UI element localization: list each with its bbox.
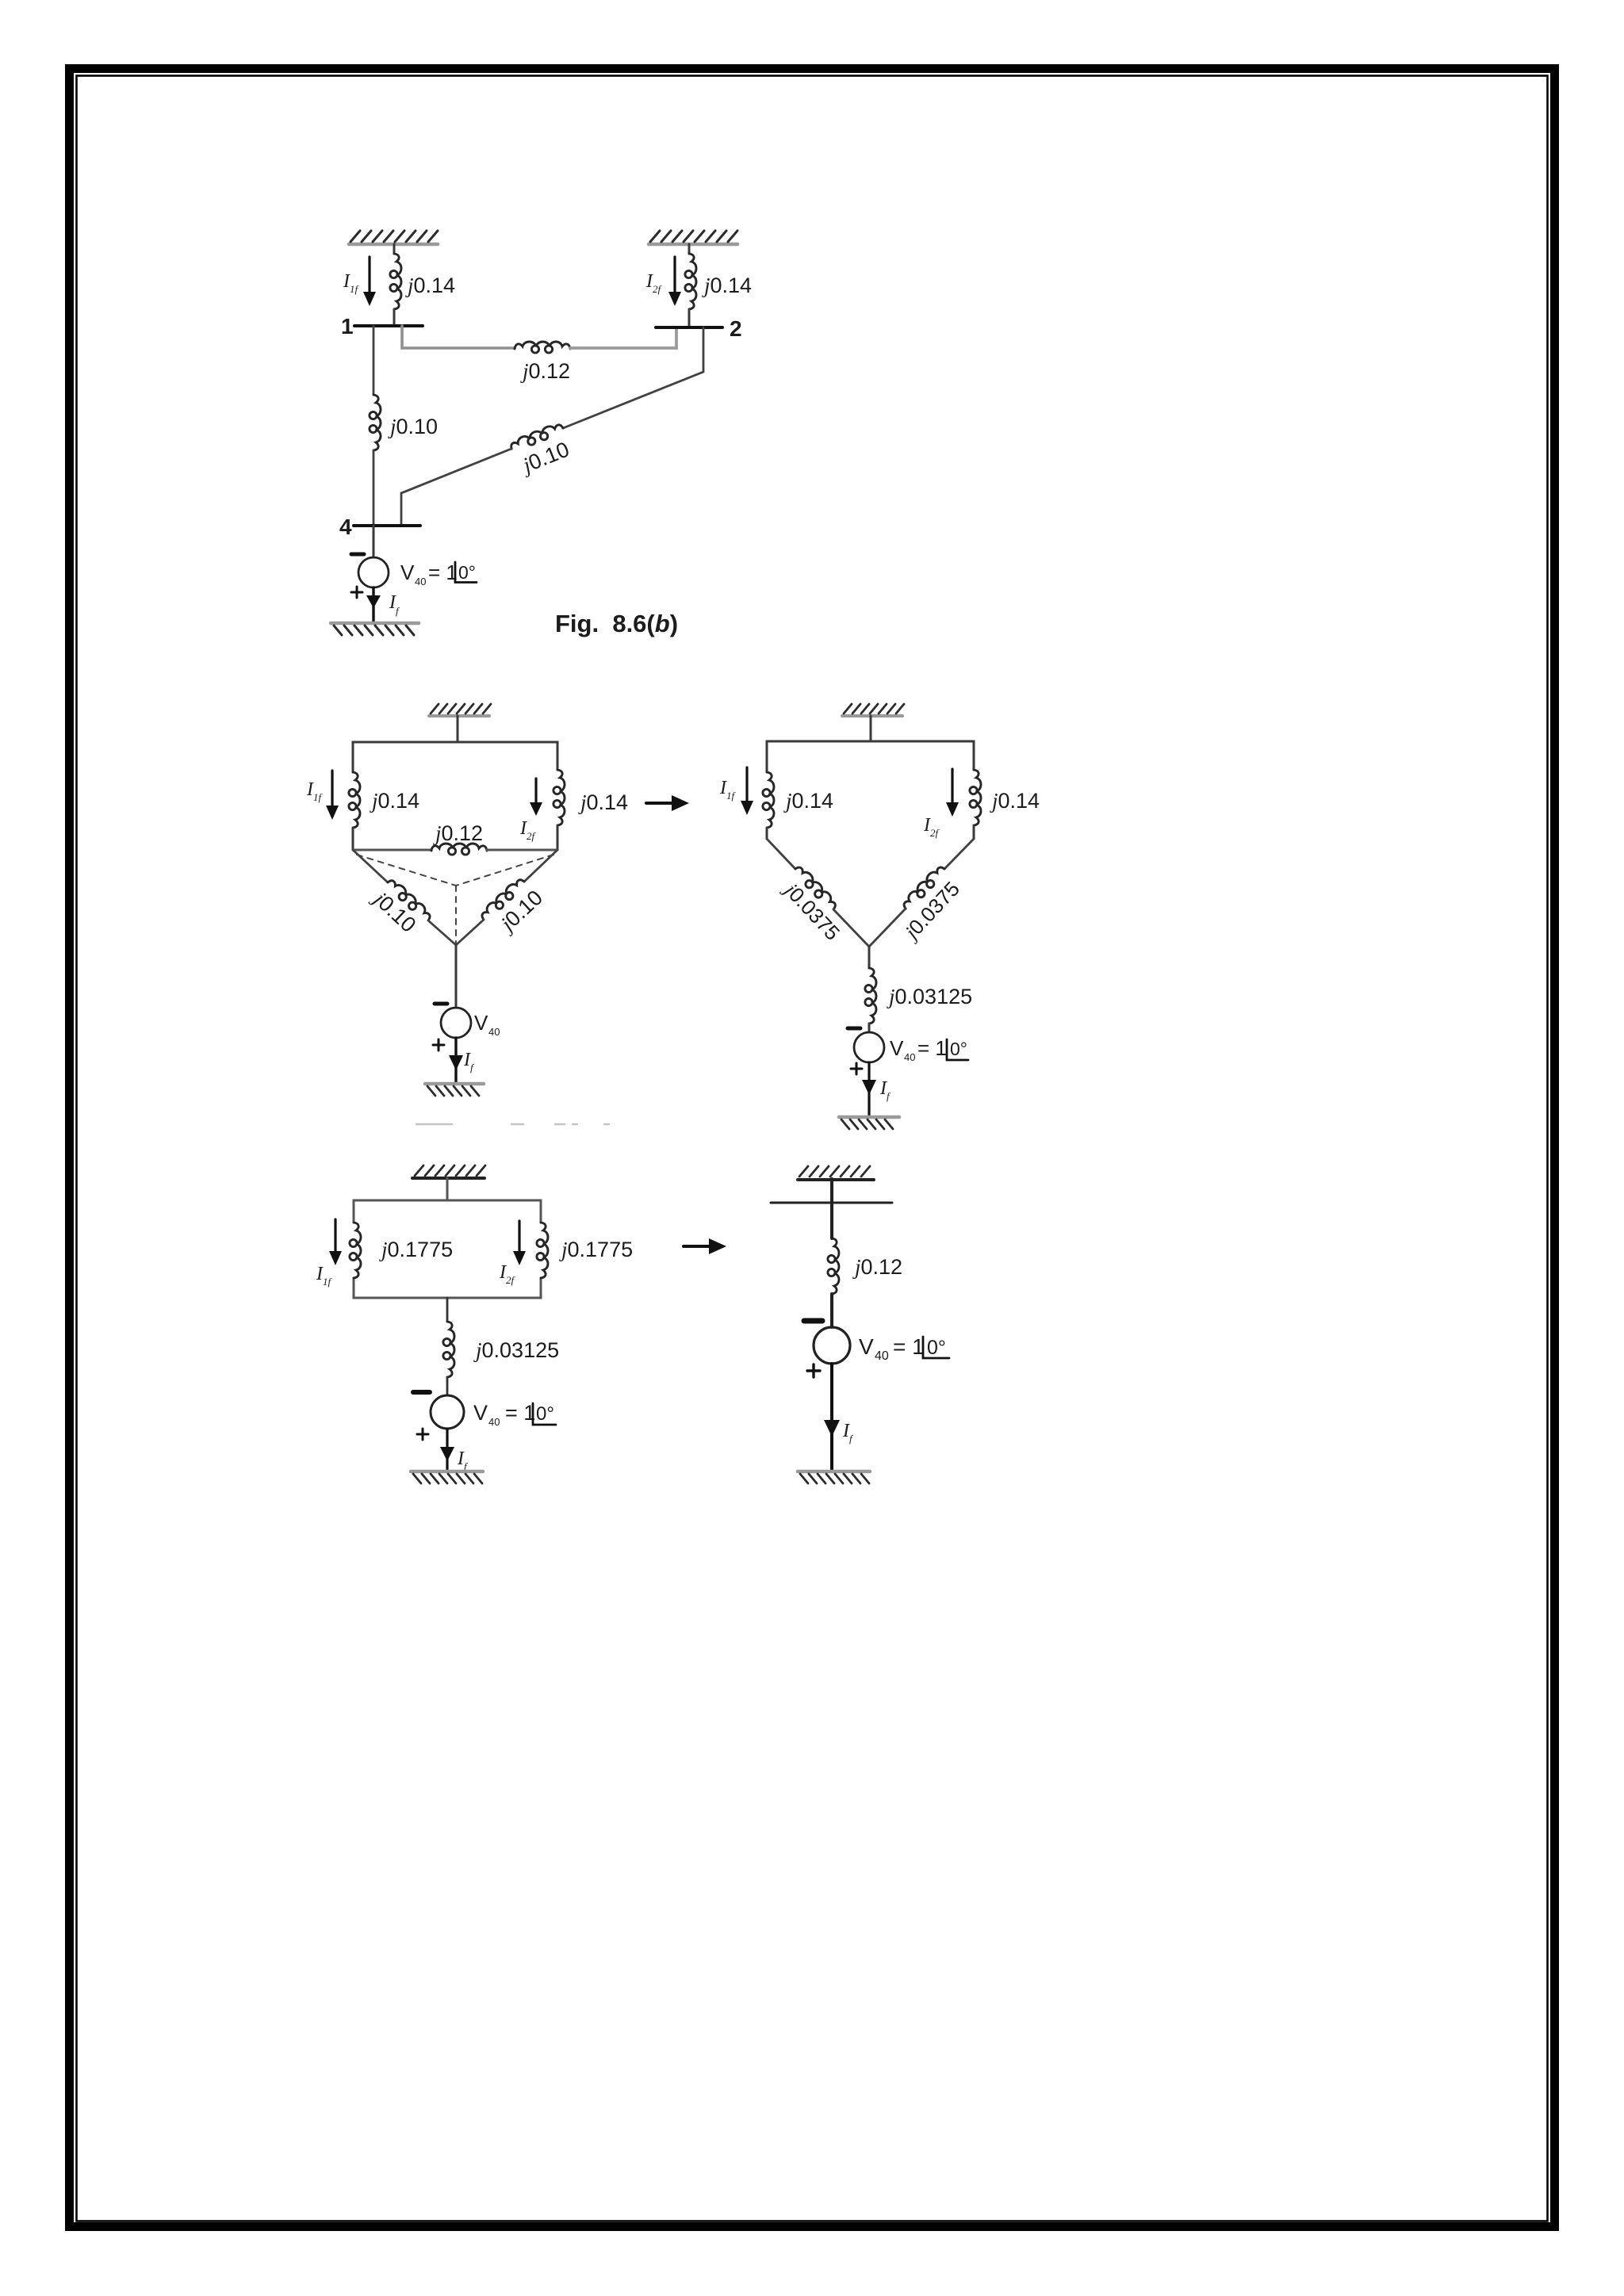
dashed construction lines (star equivalent) [357, 855, 553, 943]
wire bus4 to source [373, 526, 375, 557]
inductor j0.10 (delta right) [479, 876, 527, 922]
ground G1 (top-left of Fig 8.6b) [349, 243, 438, 247]
voltage source V40 (delta circuit) [441, 1008, 471, 1038]
arrow I1f [368, 257, 370, 294]
bottom wire of loop with j0.12 [353, 849, 431, 851]
inductor j0.1775 (right) [537, 1223, 548, 1278]
inductor j0.12 (top of delta) [431, 844, 487, 855]
arrow I1f [331, 771, 333, 808]
wire source to ground + arrow If [868, 1062, 870, 1116]
wire star junction to source [455, 945, 458, 1008]
ground G3 (bottom of Fig 8.6b) [331, 622, 419, 626]
minus sign [351, 553, 364, 557]
delta left diagonal wire [353, 850, 388, 882]
right diagonal wire to coil [944, 839, 974, 869]
ground G10 (top of final circuit) [798, 1178, 874, 1181]
wire coil to source [868, 1024, 871, 1032]
bus 4 [354, 524, 420, 527]
arrow I1f [334, 1219, 336, 1253]
plus sign [417, 1429, 428, 1440]
label j0.0375 (right, rotated) [898, 877, 964, 945]
inductor j0.14 (left) [349, 772, 360, 828]
minus sign [435, 1002, 447, 1006]
svg-text:j0.12: j0.12 [852, 1255, 902, 1279]
wire to bottom-left corner [352, 828, 354, 850]
wire diagonal to bus 4 stub [401, 449, 511, 526]
wire coil to star point [869, 909, 906, 947]
inductor j0.12 (final) [828, 1238, 839, 1294]
wire ground to rectangle [446, 1178, 449, 1200]
wire coil to bus 2 [688, 309, 691, 327]
left diagonal wire to coil [767, 839, 795, 869]
wire star point down [868, 947, 871, 968]
wire coil to source [446, 1377, 449, 1395]
wire source to ground + arrow If [372, 587, 374, 622]
arrow I1f [745, 767, 748, 803]
svg-text:= 1: = 1 [893, 1334, 925, 1359]
inductor j0.14 (star right) [970, 770, 981, 825]
ground G11 (bottom of final circuit) [798, 1470, 870, 1474]
label j0.0375 (left, rotated) [779, 877, 845, 945]
svg-text:40: 40 [415, 576, 426, 587]
svg-text:j0.14: j0.14 [370, 789, 419, 813]
svg-text:V: V [400, 561, 415, 584]
inductor j0.03125 [865, 968, 876, 1024]
inductor j0.10 (delta left) [385, 877, 434, 923]
plus sign [351, 587, 362, 598]
voltage source V40 (star circuit) [854, 1032, 884, 1062]
delta right diagonal wire [524, 850, 557, 882]
wire source to ground + arrow If [454, 1038, 457, 1083]
svg-text:0°: 0° [536, 1403, 554, 1425]
svg-text:j0.1775: j0.1775 [559, 1238, 633, 1261]
wire ground to coil (right) [688, 244, 691, 254]
wire source to ground + arrow If [446, 1429, 448, 1470]
svg-text:1: 1 [341, 314, 354, 339]
transform arrow (delta to star) [646, 802, 676, 805]
wire to star junction [456, 920, 484, 945]
bus 1 [354, 324, 423, 327]
ground G9 (bottom of parallel circuit) [411, 1470, 483, 1474]
svg-text:40: 40 [488, 1026, 500, 1038]
arrow I2f [673, 257, 676, 294]
svg-text:j0.1775: j0.1775 [379, 1238, 453, 1261]
svg-text:V: V [473, 1401, 488, 1425]
svg-text:4: 4 [339, 515, 352, 539]
inductor j0.03125 (series) [443, 1322, 454, 1377]
ground G4 (top of delta circuit) [429, 714, 489, 717]
wire ground to coil [393, 244, 396, 254]
inductor j0.0375 (right) [901, 864, 948, 912]
wire ground down [870, 716, 872, 741]
ground G5 (bottom of delta circuit) [425, 1082, 484, 1086]
horizontal bus line [771, 1202, 892, 1204]
wire coil to bus 1 [393, 309, 396, 325]
inductor j0.0375 (left) [792, 864, 838, 912]
minus sign [413, 1390, 430, 1395]
voltage source V40 (final circuit) [814, 1327, 850, 1364]
inductor j0.12 line 1-2 [515, 342, 570, 353]
minus sign [804, 1318, 822, 1324]
svg-text:0°: 0° [927, 1337, 946, 1359]
svg-text:V: V [890, 1036, 904, 1060]
label j0.10 (delta right, rotated) [494, 886, 547, 937]
wire bus2 stub down + diagonal line 2-4 [563, 327, 703, 428]
ground G8 (top of parallel circuit) [412, 1177, 485, 1180]
label j0.10 (diagonal) [517, 437, 573, 477]
svg-text:V: V [859, 1334, 874, 1359]
label j0.10 (delta left, rotated) [368, 886, 421, 937]
svg-text:j0.14: j0.14 [405, 274, 455, 297]
wire ground through bus to coil [830, 1179, 833, 1238]
svg-text:j0.10: j0.10 [388, 415, 438, 438]
wire bus1 stub to line 1-2 [402, 326, 515, 348]
voltage source V40 [358, 557, 389, 587]
transform arrow (parallel to final) [684, 1245, 714, 1248]
svg-text:j0.14: j0.14 [990, 789, 1040, 813]
arrow I2f [534, 779, 537, 804]
svg-text:40: 40 [904, 1051, 915, 1063]
svg-text:2: 2 [730, 316, 742, 341]
arrow I2f [951, 769, 953, 805]
svg-text:Fig. 8.6(b): Fig. 8.6(b) [555, 610, 678, 637]
svg-text:0°: 0° [950, 1039, 967, 1059]
svg-text:V: V [474, 1011, 488, 1035]
wire ground down [457, 716, 459, 742]
svg-text:40: 40 [875, 1349, 889, 1363]
wire coil to bus 4 [373, 450, 375, 526]
arrow I2f [518, 1221, 520, 1253]
minus sign [848, 1027, 860, 1031]
bus 2 [656, 326, 722, 329]
parallel loop rectangle [354, 1200, 541, 1223]
inductor j0.14 (star left) [763, 772, 774, 828]
svg-text:j0.03125: j0.03125 [887, 985, 972, 1008]
svg-text:0°: 0° [458, 562, 476, 583]
wire source to ground + arrow If [830, 1364, 833, 1470]
inductor j0.1775 (left) [350, 1223, 361, 1278]
wire coil to diagonal [973, 825, 975, 839]
top wire [767, 741, 974, 772]
svg-text:j0.03125: j0.03125 [473, 1338, 559, 1362]
wire coil to source [830, 1294, 833, 1327]
inductor j0.10 (line 2-4, diagonal) [509, 422, 565, 453]
svg-text:j0.14: j0.14 [783, 789, 833, 813]
svg-text:j0.14: j0.14 [702, 274, 752, 297]
plus sign [851, 1063, 862, 1074]
inductor j0.14 (right generator) [685, 254, 696, 309]
ground G7 (bottom of star circuit) [839, 1115, 899, 1119]
wire bus1 to coil j0.10 (line 1-4) [373, 326, 375, 395]
svg-text:40: 40 [488, 1416, 500, 1428]
ground G6 (top of star circuit) [842, 714, 902, 717]
svg-text:= 1: = 1 [917, 1036, 947, 1060]
ground G2 (top-right) [649, 243, 737, 247]
wire to bus 2 stub [570, 327, 676, 348]
svg-text:j0.12: j0.12 [520, 359, 570, 383]
svg-text:j0.12: j0.12 [433, 821, 483, 845]
plus sign [433, 1039, 444, 1050]
inductor j0.14 (left generator) [390, 254, 401, 309]
inductor j0.14 (right) [553, 770, 565, 825]
wire to bottom-right corner [557, 825, 559, 850]
wire to star junction [428, 920, 456, 945]
wire coil to diagonal [766, 828, 768, 839]
faint erased caption remnants [416, 1123, 609, 1125]
wire rect bottom to coil [446, 1298, 449, 1322]
svg-text:= 1: = 1 [505, 1401, 535, 1425]
svg-text:j0.14: j0.14 [578, 790, 628, 814]
svg-text:= 1: = 1 [428, 561, 458, 584]
voltage source V40 (parallel circuit) [431, 1395, 464, 1429]
inductor j0.10 (line 1-4) [370, 395, 381, 450]
wire coil to star point [833, 909, 869, 947]
plus sign [807, 1364, 820, 1377]
top wire of loop [353, 742, 557, 772]
